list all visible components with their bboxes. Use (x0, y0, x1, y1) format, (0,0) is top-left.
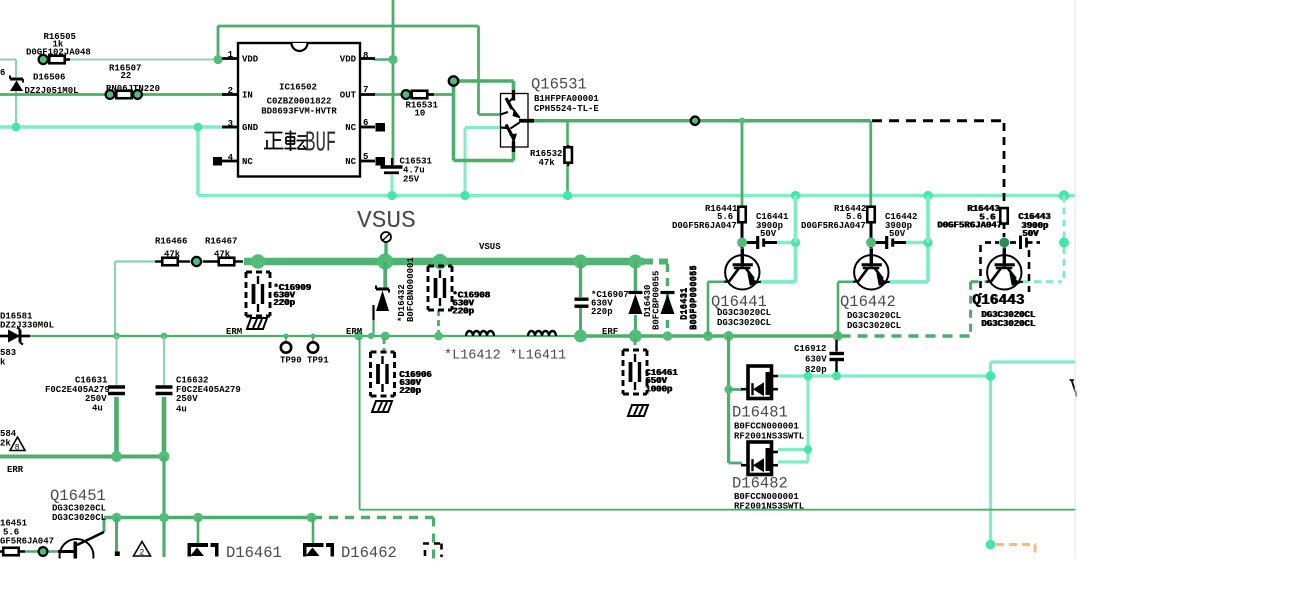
svg-text:GND: GND (242, 123, 259, 133)
svg-text:2: 2 (140, 549, 145, 558)
svg-text:47k: 47k (164, 250, 181, 260)
svg-text:D0GF5R6JA047: D0GF5R6JA047 (801, 221, 866, 231)
svg-text:C16631: C16631 (75, 376, 108, 386)
svg-text:DG3C3020CL: DG3C3020CL (981, 319, 1035, 329)
svg-text:BUF: BUF (305, 127, 336, 160)
svg-text:D16506: D16506 (33, 73, 65, 83)
svg-text:DG3C3020CL: DG3C3020CL (52, 513, 106, 523)
svg-text:5: 5 (363, 152, 368, 162)
svg-text:D16431: D16431 (679, 287, 689, 320)
svg-text:DG3C3020CL: DG3C3020CL (717, 308, 771, 318)
svg-text:2k: 2k (0, 439, 11, 449)
svg-text:7: 7 (363, 85, 368, 95)
svg-text:B1HFPFA00001: B1HFPFA00001 (534, 94, 599, 104)
svg-text:220p: 220p (399, 386, 421, 396)
svg-text:ERM: ERM (346, 327, 362, 337)
svg-text:IC16502: IC16502 (279, 83, 317, 93)
svg-text:NC: NC (242, 157, 253, 167)
svg-text:RN06JTN220: RN06JTN220 (106, 84, 160, 94)
svg-text:GF5R6JA047: GF5R6JA047 (0, 537, 54, 547)
svg-text:25V: 25V (403, 175, 420, 185)
svg-text:B0GF0P000055: B0GF0P000055 (689, 265, 699, 330)
svg-text:DZ2J051M0L: DZ2J051M0L (25, 86, 79, 96)
svg-text:D0GF5R6JA047: D0GF5R6JA047 (672, 221, 737, 231)
svg-text:RF2001NS3SWTL: RF2001NS3SWTL (734, 502, 804, 512)
svg-text:C16632: C16632 (176, 376, 208, 386)
svg-text:DG3C3020CL: DG3C3020CL (52, 504, 106, 514)
svg-text:B0FCBN000001: B0FCBN000001 (406, 257, 416, 322)
svg-text:VDD: VDD (242, 55, 259, 65)
svg-text:B0FCCN000001: B0FCCN000001 (734, 422, 799, 432)
svg-text:TP90: TP90 (280, 356, 302, 366)
svg-text:C0ZBZ0001822: C0ZBZ0001822 (267, 97, 332, 107)
svg-text:DZ2J330M0L: DZ2J330M0L (0, 321, 54, 331)
svg-text:D16481: D16481 (732, 404, 788, 422)
svg-text:22: 22 (121, 71, 132, 81)
svg-text:820p: 820p (805, 365, 827, 375)
svg-text:IN: IN (242, 91, 253, 101)
svg-text:47k: 47k (214, 250, 231, 260)
svg-text:250V: 250V (85, 394, 107, 404)
svg-text:50V: 50V (1022, 229, 1039, 239)
svg-text:NC: NC (345, 123, 356, 133)
svg-text:D16482: D16482 (732, 475, 788, 493)
svg-text:630V: 630V (805, 355, 827, 365)
svg-text:Q16451: Q16451 (50, 487, 106, 505)
svg-text:RF2001NS3SWTL: RF2001NS3SWTL (734, 432, 804, 442)
svg-text:220p: 220p (591, 307, 613, 317)
svg-text:Q16443: Q16443 (972, 293, 1024, 309)
svg-text:ERF: ERF (602, 327, 618, 337)
svg-text:TP91: TP91 (307, 356, 329, 366)
svg-text:ERR: ERR (7, 465, 24, 475)
svg-text:*L16412: *L16412 (444, 349, 501, 364)
svg-text:VSUS: VSUS (479, 242, 501, 252)
svg-text:2: 2 (228, 86, 233, 96)
svg-text:50V: 50V (760, 229, 777, 239)
svg-text:R16467: R16467 (205, 237, 237, 247)
svg-text:4: 4 (228, 153, 234, 163)
svg-text:BD8693FVM-HVTR: BD8693FVM-HVTR (261, 107, 337, 117)
svg-text:8: 8 (363, 51, 368, 61)
svg-text:R16466: R16466 (155, 237, 187, 247)
svg-text:D0GF102JA048: D0GF102JA048 (26, 48, 91, 58)
svg-text:50V: 50V (889, 229, 906, 239)
svg-text:250V: 250V (176, 394, 198, 404)
svg-text:3: 3 (228, 119, 233, 129)
svg-text:1000p: 1000p (645, 385, 672, 395)
svg-text:8: 8 (15, 443, 20, 452)
svg-text:OUT: OUT (340, 91, 357, 101)
svg-text:583: 583 (0, 348, 16, 358)
svg-text:VSUS: VSUS (357, 208, 416, 235)
svg-text:4u: 4u (176, 405, 187, 415)
svg-text:DG3C3020CL: DG3C3020CL (717, 318, 771, 328)
svg-text:VDD: VDD (340, 55, 357, 65)
svg-text:C16912: C16912 (794, 344, 826, 354)
svg-text:Q16442: Q16442 (840, 293, 896, 311)
svg-text:10: 10 (415, 109, 426, 119)
svg-text:B0FCCN000001: B0FCCN000001 (734, 492, 799, 502)
svg-text:4u: 4u (92, 404, 103, 414)
svg-text:NC: NC (345, 157, 356, 167)
svg-text:220p: 220p (273, 298, 295, 308)
svg-text:k: k (0, 358, 6, 368)
svg-text:DG3C3020CL: DG3C3020CL (847, 321, 901, 331)
svg-text:6: 6 (0, 68, 5, 78)
svg-text:*L16411: *L16411 (510, 349, 567, 364)
svg-text:B0FCBP00055: B0FCBP00055 (652, 271, 662, 330)
svg-text:DG3C3020CL: DG3C3020CL (847, 311, 901, 321)
svg-text:6: 6 (363, 118, 368, 128)
svg-text:1: 1 (228, 50, 234, 60)
svg-text:220p: 220p (452, 307, 474, 317)
svg-text:Q16531: Q16531 (531, 76, 587, 94)
svg-text:ERM: ERM (226, 327, 242, 337)
svg-text:584: 584 (0, 429, 17, 439)
svg-text:CPH5524-TL-E: CPH5524-TL-E (534, 104, 599, 114)
svg-text:D0GF5R6JA047: D0GF5R6JA047 (937, 221, 1002, 231)
svg-text:47k: 47k (539, 158, 556, 168)
